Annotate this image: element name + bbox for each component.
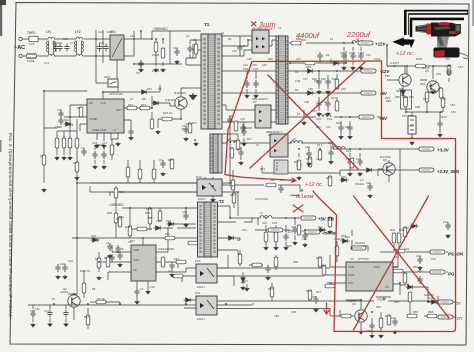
svg-text:C21: C21 [327, 117, 333, 121]
svg-text:C19: C19 [346, 149, 352, 153]
svg-text:C29: C29 [156, 219, 161, 223]
svg-text:+12V: +12V [375, 41, 386, 46]
svg-text:R24 1K: R24 1K [163, 111, 172, 115]
svg-text:C20: C20 [316, 117, 322, 121]
svg-text:C55: C55 [308, 87, 313, 91]
svg-text:R99: R99 [306, 65, 311, 69]
svg-text:ZD2: ZD2 [91, 234, 96, 238]
svg-text:C30: C30 [182, 210, 187, 214]
svg-text:FB: FB [133, 268, 137, 272]
svg-text:PC1: PC1 [195, 291, 201, 295]
svg-text:VCC: VCC [100, 101, 106, 105]
svg-text:C37: C37 [303, 77, 308, 81]
svg-text:+3.3V_SEN: +3.3V_SEN [437, 169, 460, 174]
svg-text:C34: C34 [243, 67, 249, 71]
svg-text:MBR2045CT: MBR2045CT [266, 130, 282, 134]
svg-text:T2: T2 [219, 199, 225, 204]
svg-text:C18: C18 [356, 157, 361, 161]
svg-text:C48: C48 [416, 254, 421, 258]
svg-text:C59: C59 [274, 314, 279, 318]
svg-text:ICE2A0165Z: ICE2A0165Z [158, 247, 174, 251]
svg-text:R12: R12 [84, 315, 90, 319]
svg-text:D19: D19 [166, 219, 172, 223]
svg-text:T1: T1 [204, 22, 210, 27]
svg-text:C11: C11 [35, 307, 40, 311]
svg-text:C44: C44 [181, 127, 186, 131]
svg-text:R58: R58 [394, 300, 399, 304]
svg-text:VDD: VDD [348, 265, 354, 269]
svg-text:R72: R72 [294, 160, 299, 164]
svg-text:DBL-204DFT: DBL-204DFT [252, 97, 269, 101]
svg-text:+5V: +5V [379, 116, 388, 121]
svg-text:C30: C30 [57, 108, 62, 112]
svg-text:C50: C50 [436, 72, 441, 76]
svg-text:C19: C19 [68, 259, 73, 263]
svg-text:D2: D2 [186, 34, 190, 38]
svg-text:C23: C23 [272, 221, 278, 225]
svg-text:R80: R80 [385, 74, 390, 78]
svg-text:R43: R43 [242, 228, 247, 232]
svg-text:D19: D19 [355, 241, 360, 245]
svg-text:R67: R67 [413, 310, 419, 314]
svg-text:-12V: -12V [455, 317, 463, 321]
svg-text:ZNR1: ZNR1 [152, 53, 160, 57]
svg-text:R9B: R9B [415, 105, 420, 109]
svg-text:PC2: PC2 [196, 175, 202, 179]
svg-text:C-945: C-945 [422, 66, 430, 70]
svg-text:C8: C8 [136, 71, 140, 75]
svg-text:C42: C42 [391, 316, 396, 320]
svg-text:+300VDC: +300VDC [153, 27, 168, 31]
svg-text:A-1273: A-1273 [390, 61, 399, 65]
svg-text:C41: C41 [443, 220, 448, 224]
svg-text:U5: U5 [350, 257, 354, 261]
svg-text:R13: R13 [128, 103, 134, 107]
svg-text:WT7510: WT7510 [358, 257, 369, 261]
svg-text:R65: R65 [230, 193, 235, 197]
svg-text:C24: C24 [92, 141, 98, 145]
svg-text:U4: U4 [128, 240, 132, 244]
svg-text:D10: D10 [64, 118, 69, 122]
svg-text:LF1: LF1 [46, 30, 52, 34]
svg-text:KIA431: KIA431 [355, 182, 365, 186]
svg-text:C10: C10 [55, 125, 61, 129]
svg-text:C102: C102 [440, 115, 447, 119]
svg-text:3шт: 3шт [259, 20, 276, 29]
svg-text:R88: R88 [386, 99, 391, 103]
svg-text:R7: R7 [52, 297, 56, 301]
svg-text:C4: C4 [159, 158, 163, 162]
svg-text:R15: R15 [168, 158, 173, 162]
svg-text:PC3: PC3 [195, 259, 201, 263]
svg-text:R27: R27 [247, 137, 252, 141]
svg-text:D4: D4 [295, 70, 299, 74]
svg-text:C6: C6 [106, 241, 110, 245]
svg-text:THR148: THR148 [165, 98, 175, 102]
svg-text:LF2: LF2 [75, 30, 81, 34]
svg-text:C52: C52 [445, 57, 450, 61]
svg-text:R48: R48 [321, 264, 326, 268]
svg-text:B-1203A: B-1203A [380, 155, 391, 159]
svg-text:C945: C945 [349, 299, 356, 303]
svg-text:C18: C18 [60, 262, 65, 266]
svg-text:+12 пс: +12 пс [396, 51, 413, 57]
svg-text:C22: C22 [262, 221, 268, 225]
svg-text:R76: R76 [306, 289, 311, 293]
svg-text:R45: R45 [399, 228, 405, 232]
svg-text:C31: C31 [99, 41, 105, 45]
svg-text:C6: C6 [120, 247, 124, 251]
svg-text:+5V_SB: +5V_SB [322, 231, 337, 236]
svg-text:R61: R61 [385, 314, 390, 318]
svg-text:C3: C3 [193, 38, 197, 42]
svg-text:COMP: COMP [89, 117, 98, 121]
svg-text:R17: R17 [192, 121, 197, 125]
svg-text:C36: C36 [262, 63, 267, 67]
svg-text:EL817: EL817 [198, 197, 207, 201]
svg-text:R50: R50 [393, 265, 398, 269]
svg-text:PRL: PRL [348, 281, 354, 285]
svg-text:C21: C21 [326, 125, 331, 129]
svg-text:FAN: FAN [408, 124, 414, 128]
svg-text:GND: GND [348, 273, 354, 277]
svg-text:D18: D18 [360, 241, 365, 245]
svg-text:UT: UT [130, 97, 134, 101]
svg-text:R39: R39 [293, 260, 298, 264]
svg-text:C46: C46 [340, 51, 345, 55]
svg-text:C43: C43 [431, 257, 436, 261]
svg-text:D8: D8 [142, 97, 146, 101]
svg-text:CX1: CX1 [63, 37, 69, 41]
svg-text:~AC: ~AC [14, 45, 25, 51]
svg-text:SW1: SW1 [104, 75, 111, 79]
svg-text:CY1: CY1 [70, 41, 76, 45]
svg-text:C35: C35 [253, 67, 259, 71]
svg-text:R3: R3 [77, 106, 81, 110]
svg-text:ZNR2: ZNR2 [152, 69, 160, 73]
svg-text:C27: C27 [243, 279, 248, 283]
svg-text:RT3: RT3 [403, 95, 409, 99]
svg-text:FUSE: FUSE [27, 59, 35, 63]
svg-text:C40: C40 [366, 181, 371, 185]
svg-text:R34: R34 [237, 147, 242, 151]
svg-text:L1: L1 [278, 26, 282, 30]
svg-text:C57: C57 [312, 295, 317, 299]
svg-text:C14: C14 [30, 309, 36, 313]
svg-text:C50: C50 [450, 103, 455, 107]
svg-text:R5 1K: R5 1K [97, 297, 105, 301]
svg-text:8.1ком: 8.1ком [296, 194, 314, 200]
svg-text:R1: R1 [40, 154, 44, 158]
svg-text:L7: L7 [260, 211, 264, 215]
svg-text:R8: R8 [92, 287, 96, 291]
svg-text:VS: VS [385, 285, 389, 289]
svg-text:PGO: PGO [374, 265, 381, 269]
svg-text:CY2: CY2 [44, 61, 50, 65]
svg-text:PG: PG [448, 272, 455, 277]
svg-text:R6: R6 [95, 257, 99, 261]
svg-text:D20: D20 [404, 282, 410, 286]
svg-text:D5: D5 [295, 88, 299, 92]
svg-text:~115V/230V: ~115V/230V [108, 92, 123, 96]
svg-text:4400uf: 4400uf [296, 31, 320, 40]
svg-text:C15: C15 [232, 49, 237, 53]
svg-text:R6: R6 [104, 256, 108, 260]
svg-text:C101: C101 [358, 51, 365, 55]
svg-text:R60: R60 [119, 190, 124, 194]
svg-text:C48: C48 [295, 79, 301, 83]
svg-text:C49: C49 [404, 247, 409, 251]
svg-text:R30: R30 [332, 77, 337, 81]
svg-text:R28: R28 [268, 57, 273, 61]
svg-text:2200uf: 2200uf [346, 30, 371, 39]
svg-text:EL817: EL817 [197, 317, 206, 321]
svg-text:<300VDC: <300VDC [109, 203, 124, 207]
svg-text:D9: D9 [154, 102, 158, 106]
svg-text:9(12N60): 9(12N60) [174, 91, 186, 95]
svg-text:C22: C22 [150, 285, 155, 289]
svg-text:C26: C26 [302, 237, 307, 241]
svg-text:+5V_SB: +5V_SB [318, 217, 334, 222]
svg-text:R71: R71 [317, 143, 322, 147]
svg-text:VREF GND: VREF GND [92, 128, 106, 132]
svg-text:R33: R33 [345, 125, 350, 129]
svg-text:R32: R32 [336, 121, 341, 125]
svg-text:EL817: EL817 [197, 285, 206, 289]
svg-text:R2: R2 [73, 161, 77, 165]
svg-text:D8: D8 [158, 87, 162, 91]
svg-text:R29: R29 [314, 79, 320, 83]
svg-text:+3.3V: +3.3V [377, 298, 387, 302]
svg-text:THR1: THR1 [27, 31, 36, 35]
svg-text:R70: R70 [326, 176, 331, 180]
svg-text:R64: R64 [230, 184, 235, 188]
svg-text:R73: R73 [306, 157, 311, 161]
svg-text:R82: R82 [441, 97, 446, 101]
svg-text:ZD1: ZD1 [399, 87, 404, 91]
svg-text:C15: C15 [240, 126, 245, 130]
svg-text:C17: C17 [316, 157, 321, 161]
svg-text:SCK: SCK [29, 42, 35, 46]
svg-text:+3.3V: +3.3V [437, 148, 450, 153]
svg-text:C7: C7 [81, 146, 85, 150]
svg-text:GND: GND [133, 258, 139, 262]
svg-text:+12 пс: +12 пс [305, 182, 322, 188]
svg-text:R62: R62 [145, 211, 151, 215]
svg-text:R38: R38 [125, 225, 131, 229]
svg-text:R41: R41 [165, 232, 170, 236]
svg-text:D3: D3 [326, 53, 330, 57]
svg-text:D12: D12 [68, 123, 74, 127]
svg-text:R10: R10 [147, 87, 152, 91]
svg-text:C12: C12 [44, 309, 49, 313]
svg-text:CX1: CX1 [57, 41, 63, 45]
svg-text:R47: R47 [316, 256, 321, 260]
svg-text:R21: R21 [186, 122, 191, 126]
svg-text:C61: C61 [305, 145, 310, 149]
svg-text:R19: R19 [141, 103, 147, 107]
svg-text:R74: R74 [260, 167, 265, 171]
svg-text:R103: R103 [416, 57, 423, 61]
svg-text:D22: D22 [318, 225, 323, 229]
svg-text:R84: R84 [423, 97, 428, 101]
svg-text:C16: C16 [130, 34, 135, 38]
svg-text:OUT: OUT [116, 108, 122, 112]
svg-text:R52: R52 [418, 269, 423, 273]
svg-text:R61: R61 [116, 217, 121, 221]
svg-text:C46: C46 [366, 53, 371, 57]
svg-text:C28: C28 [168, 269, 173, 273]
svg-text:C56: C56 [341, 87, 346, 91]
svg-text:R44: R44 [390, 228, 396, 232]
svg-text:FB: FB [89, 101, 93, 105]
svg-text:R66: R66 [327, 281, 332, 285]
svg-text:R9: R9 [228, 37, 232, 41]
svg-text:R60: R60 [376, 305, 381, 309]
svg-text:C27: C27 [102, 141, 108, 145]
svg-text:R68: R68 [428, 310, 434, 314]
svg-text:R4 4.7K: R4 4.7K [80, 269, 90, 273]
svg-text:R27: R27 [234, 139, 239, 143]
svg-text:R30: R30 [321, 77, 326, 81]
svg-text:VDD: VDD [133, 248, 139, 252]
svg-text:R78: R78 [268, 287, 273, 291]
svg-text:Рис. 2. Принципиальная электри: Рис. 2. Принципиальная электрическая схе… [8, 133, 13, 319]
svg-text:R83: R83 [420, 82, 425, 86]
svg-text:+12V: +12V [285, 230, 294, 234]
svg-text:U6 KIA431: U6 KIA431 [255, 197, 269, 201]
svg-text:C38: C38 [304, 100, 309, 104]
svg-text:C58: C58 [291, 310, 296, 314]
svg-text:BR1: BR1 [110, 30, 116, 34]
svg-text:C31: C31 [98, 30, 103, 34]
svg-text:C37: C37 [296, 57, 301, 61]
svg-text:R85: R85 [395, 95, 400, 99]
svg-text:A1015: A1015 [60, 290, 69, 294]
svg-text:D15: D15 [341, 175, 346, 179]
svg-text:C24: C24 [291, 225, 296, 229]
svg-text:L2: L2 [330, 37, 334, 41]
svg-text:R53: R53 [413, 265, 418, 269]
svg-text:C2: C2 [140, 287, 144, 291]
svg-text:C36: C36 [247, 57, 252, 61]
svg-text:R60: R60 [107, 211, 113, 215]
svg-text:R77: R77 [316, 290, 321, 294]
svg-text:C53: C53 [458, 65, 463, 69]
svg-text:R40: R40 [287, 244, 292, 248]
svg-text:CT: CT [113, 128, 117, 132]
svg-text:C13: C13 [173, 46, 178, 50]
svg-text:R51: R51 [174, 257, 179, 261]
svg-text:C51: C51 [451, 110, 456, 114]
svg-text:D23: D23 [404, 226, 409, 230]
svg-text:R31: R31 [331, 96, 336, 100]
svg-text:C100: C100 [349, 51, 356, 55]
svg-text:C33: C33 [240, 117, 245, 121]
